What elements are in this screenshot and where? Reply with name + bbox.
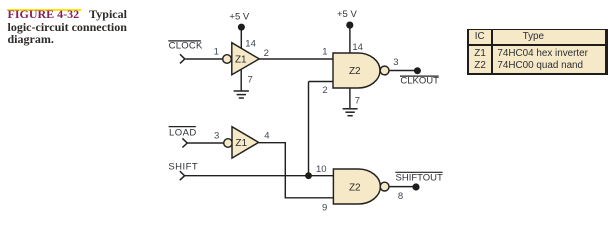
svg-text:1: 1	[322, 46, 327, 57]
svg-text:9: 9	[322, 202, 327, 213]
svg-text:SHIFT: SHIFT	[168, 162, 198, 173]
svg-text:7: 7	[248, 75, 253, 86]
svg-text:Z1: Z1	[235, 138, 247, 149]
svg-text:Z2: Z2	[349, 183, 361, 194]
svg-text:Z1: Z1	[235, 55, 247, 66]
svg-text:CLOCK: CLOCK	[169, 41, 203, 52]
svg-text:+5 V: +5 V	[337, 9, 357, 20]
svg-text:Z2: Z2	[349, 66, 361, 77]
svg-text:LOAD: LOAD	[169, 127, 197, 138]
svg-text:2: 2	[264, 48, 269, 59]
svg-text:4: 4	[264, 130, 269, 141]
svg-text:8: 8	[398, 191, 403, 202]
svg-text:3: 3	[393, 57, 398, 68]
svg-text:10: 10	[316, 164, 327, 175]
svg-text:7: 7	[355, 96, 360, 107]
svg-text:SHIFTOUT: SHIFTOUT	[396, 173, 444, 184]
svg-text:1: 1	[214, 47, 219, 58]
svg-text:+5 V: +5 V	[229, 12, 249, 23]
svg-text:14: 14	[352, 42, 363, 53]
svg-text:3: 3	[214, 130, 219, 141]
svg-text:CLKOUT: CLKOUT	[400, 76, 439, 87]
svg-text:2: 2	[322, 85, 327, 96]
svg-text:14: 14	[245, 38, 256, 49]
